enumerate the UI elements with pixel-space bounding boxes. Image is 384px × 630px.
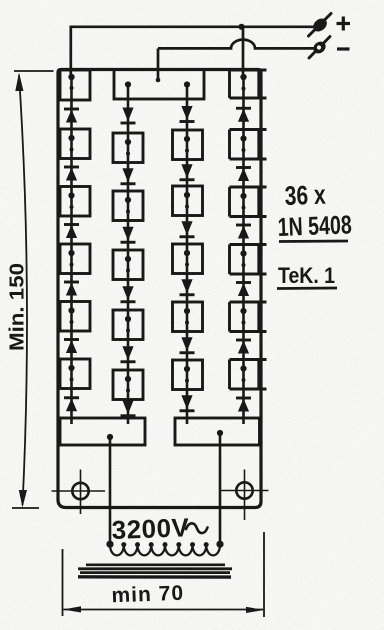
diode D8 (col 2) [121,168,136,184]
wire: - bus with hop over column-4 riser [158,40,317,49]
pin holes column 1 row 3 [68,250,74,267]
pin holes column 2 row 4 [125,316,131,333]
mounting hole right [221,470,269,521]
pin holes column 3 row 5 [184,366,190,383]
diode D4 (col 1) [64,282,79,296]
dimension: Min. 150 [7,71,54,508]
pad strip: bottom right (AC input b) [175,418,260,445]
transformer secondary winding 3200V [106,541,223,556]
diode D7 (col 2) [121,108,136,124]
pin holes column 1 row 2 [68,192,74,209]
wire: column 4 riser [242,27,245,74]
diode D5 (col 1) [64,340,79,354]
label + [337,17,351,31]
pin holes column 1 row 4 [68,307,74,324]
pin holes column 4 row 5 [240,365,246,382]
pad: column 3 row 3 [173,244,203,274]
pad: column 4 top [230,70,267,98]
pad: column 3 row 5 [173,360,203,390]
label Tek.1 [277,263,337,289]
pin holes column 3 row 1 [184,136,190,153]
pin: column 1 top pad holes [68,74,74,90]
pad: column 3 row 1 [173,130,203,160]
pad: column 4 row 2 [230,187,267,217]
diode D17 (col 3) [180,337,195,353]
diode D20 (col 4) [236,168,251,182]
pad strip: top centre (- connection, cols 2-3) [114,70,204,100]
mounting hole left [52,470,106,515]
pad: column 2 row 5 [113,370,143,400]
pad: column 1 top [60,70,90,100]
diode D6 (col 1) [64,398,79,412]
wire: column 3 backbone [186,85,189,425]
diode D1 (col 1) [64,109,79,123]
paper speckle texture (decorative) [0,0,1,1]
wire: column 4 backbone [242,74,245,424]
pad strip: bottom left (AC input a) [60,418,145,445]
pin holes column 4 row 4 [240,308,246,325]
pin holes column 3 row 3 [184,250,190,267]
pad: column 3 row 2 [173,186,203,216]
pin holes column 3 row 2 [184,192,190,209]
pin holes column 4 row 3 [240,250,246,267]
pad: column 4 row 4 [230,302,267,332]
diode D18 (col 3) [180,395,195,411]
diode D10 (col 2) [121,286,136,302]
diode D24 (col 4) [236,398,251,412]
diode D12 (col 2) [121,400,136,416]
junction: column 4 joins + bus [238,24,244,30]
pad: column 3 row 4 [173,302,203,332]
pad: column 2 row 4 [113,310,143,340]
pin holes column 2 row 3 [125,256,131,273]
pad: column 2 row 2 [113,191,143,221]
pin holes column 2 row 2 [125,197,131,214]
pad: column 1 row 2 [60,187,90,217]
label 1N5408 [277,209,352,242]
diode D9 (col 2) [121,227,136,243]
diode D19 (col 4) [236,108,251,122]
pad: column 4 row 1 [230,130,267,160]
wire: column 2 backbone [127,85,130,425]
pin holes column 4 row 1 [240,135,246,152]
pad: column 1 row 3 [60,244,90,274]
terminal - connector [309,37,330,59]
pin holes column 2 row 1 [125,139,131,156]
wire: column 1 backbone [70,77,73,424]
diode D21 (col 4) [236,225,251,239]
pin holes column 2 row 5 [125,376,131,393]
pin: column 4 top pad holes [240,74,246,91]
diode D23 (col 4) [236,340,251,354]
pin holes column 1 row 5 [68,365,74,382]
wire: - bus drop into centre tap pad [157,48,160,79]
circuit board outline [58,70,261,508]
pad: column 2 row 1 [113,133,143,163]
pad: column 2 row 3 [113,250,143,280]
pad: column 1 row 1 [60,129,90,159]
diode D14 (col 3) [180,164,195,180]
pin holes column 1 row 1 [68,135,74,152]
diode D16 (col 3) [180,279,195,295]
dimension: min 70 [63,532,265,617]
pad: column 1 row 5 [60,359,90,389]
diode D11 (col 2) [121,346,136,362]
transformer core [78,565,232,577]
diode D22 (col 4) [236,283,251,297]
pad: column 1 row 4 [60,302,90,332]
diode D2 (col 1) [64,167,79,181]
wire: AC lead b [219,433,222,547]
pad: column 4 row 5 [230,360,267,390]
pin holes column 3 row 4 [184,308,190,325]
diode D13 (col 3) [180,106,195,122]
pad: column 4 row 3 [230,245,267,275]
pin holes column 4 row 2 [240,193,246,210]
value label 3200V~ [111,512,207,545]
diode D15 (col 3) [180,221,195,237]
label - [337,47,350,50]
wire: AC lead a [109,437,112,547]
diode D3 (col 1) [64,225,79,239]
terminal + connector [309,14,332,37]
wire: + bus from column 1 to + terminal [71,27,318,79]
